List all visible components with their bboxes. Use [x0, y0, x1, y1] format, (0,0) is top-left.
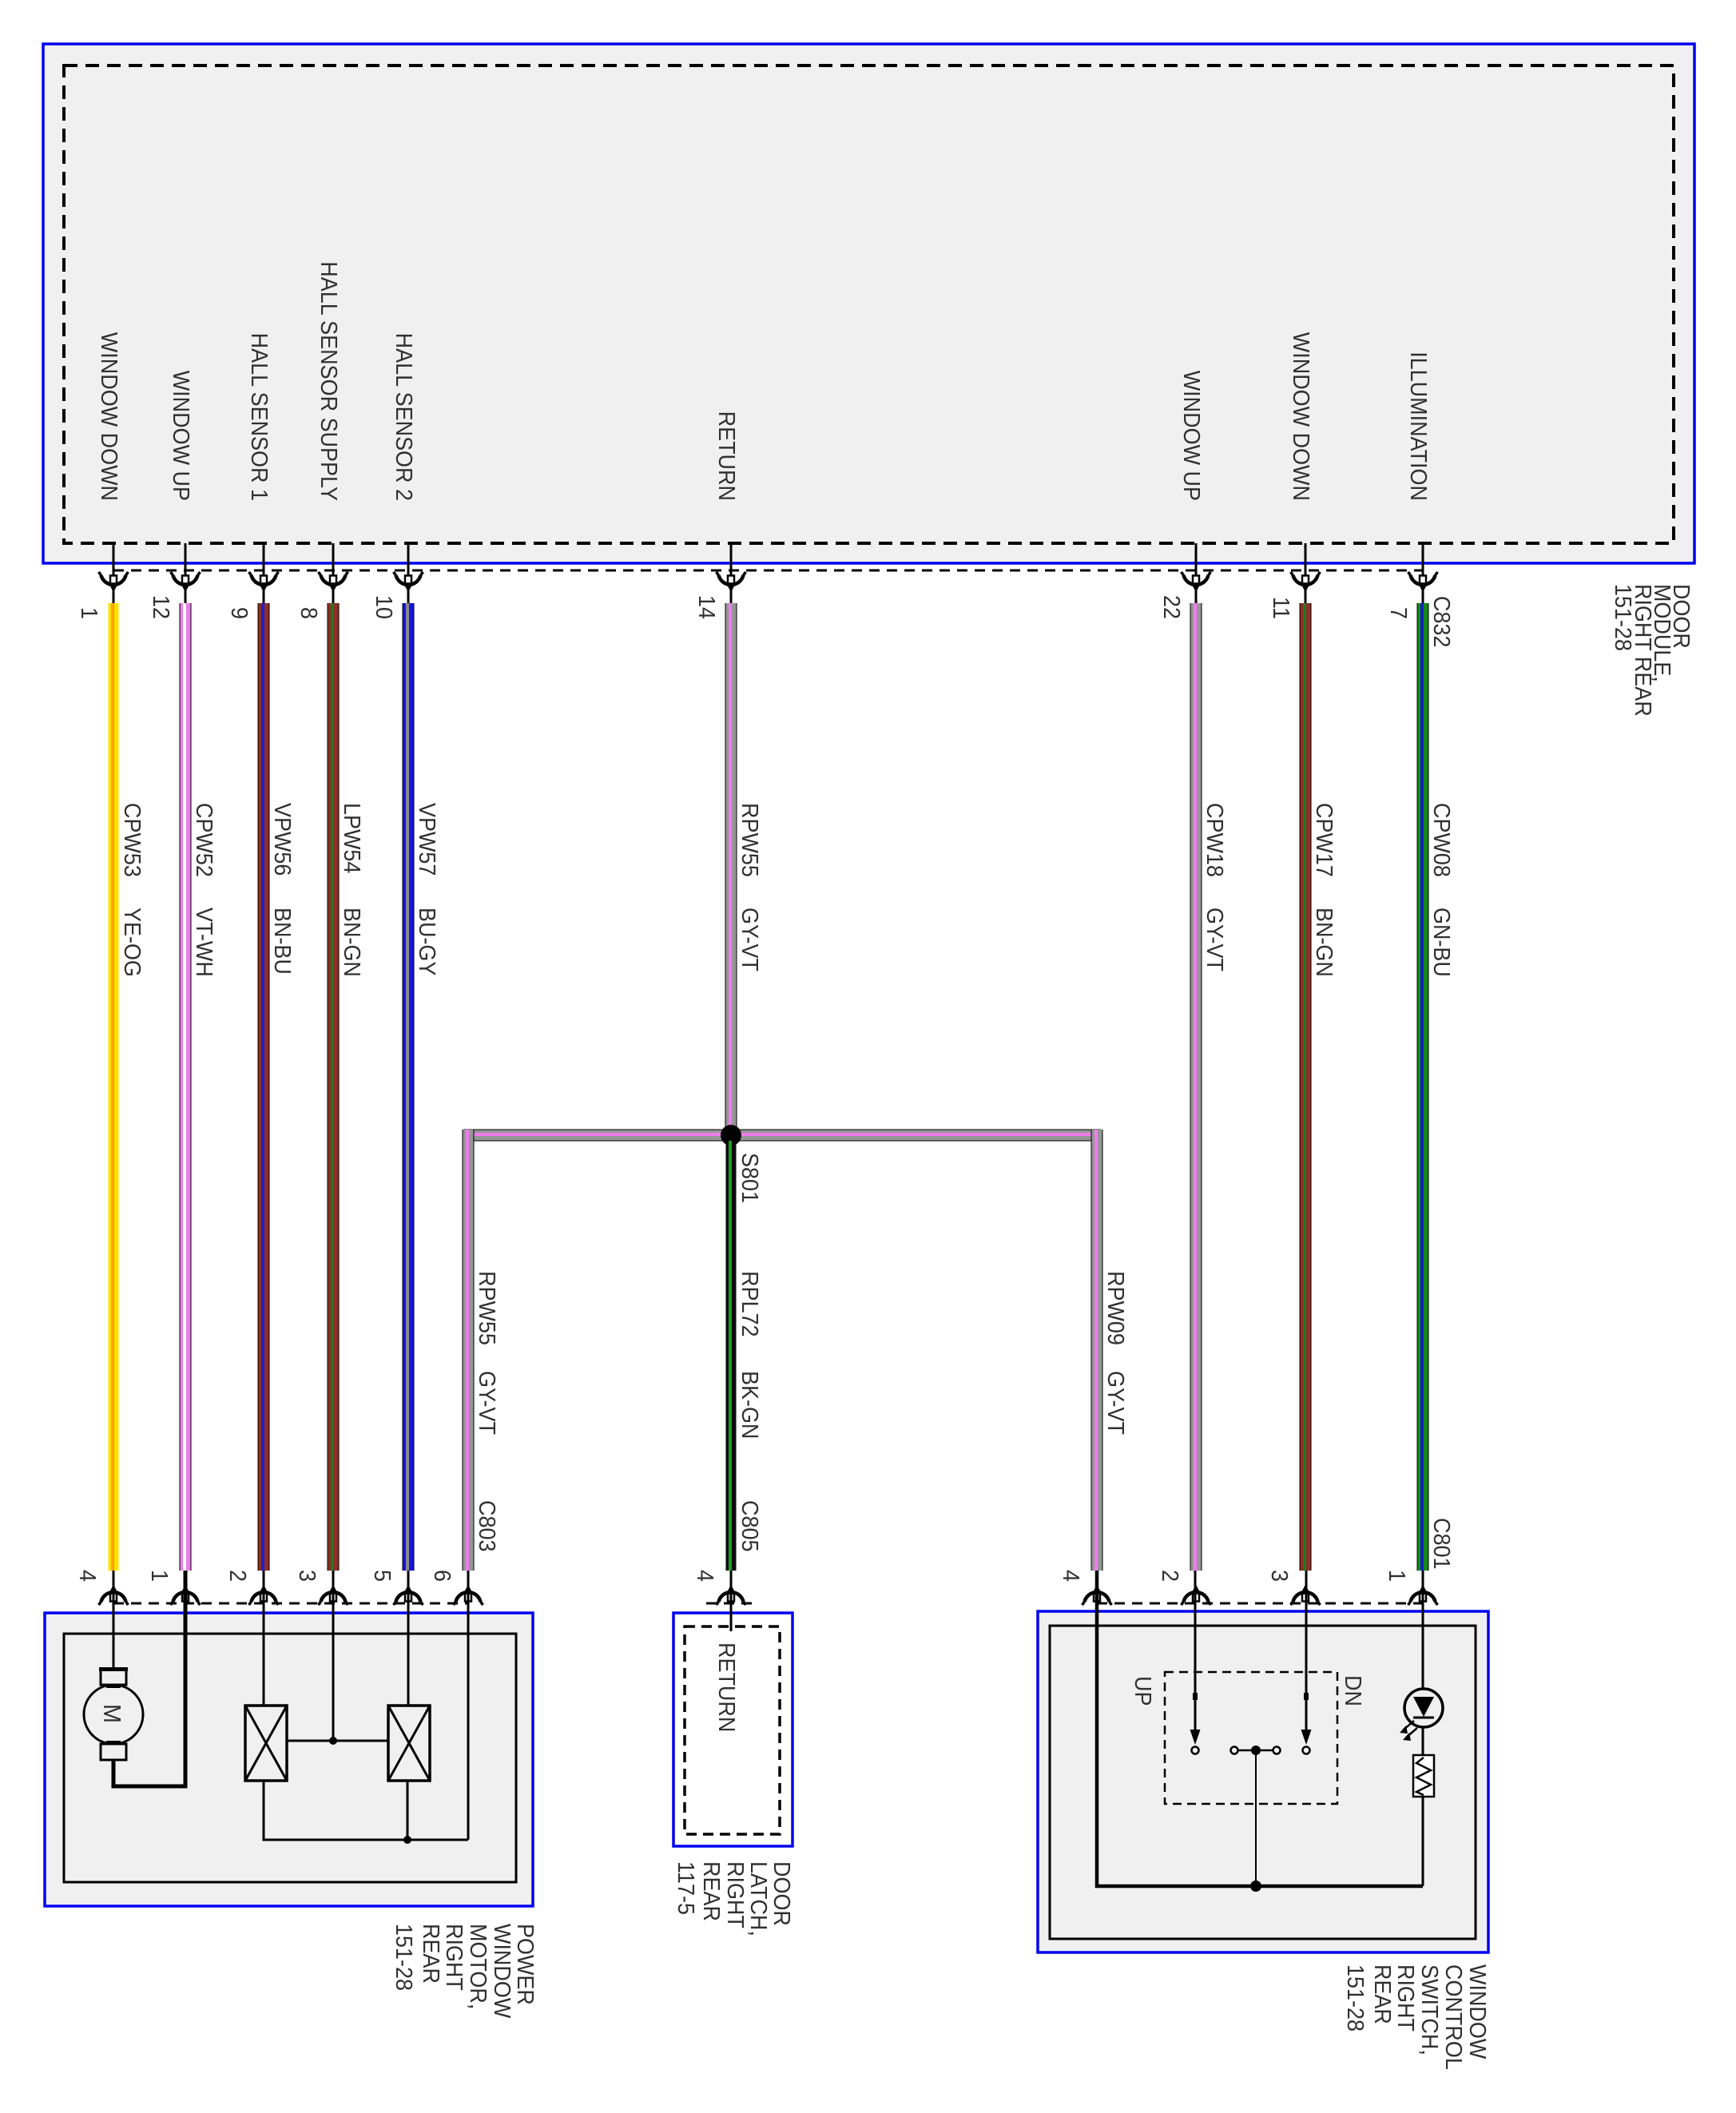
- svg-text:1: 1: [1384, 1570, 1410, 1582]
- bottom connector terminal at x=1497: [1182, 1585, 1211, 1606]
- svg-text:C801: C801: [1429, 1518, 1455, 1569]
- svg-text:117-5: 117-5: [673, 1861, 699, 1915]
- lead pin 4 to motor brush: [113, 1571, 115, 1669]
- bottom connector terminal at x=330: [249, 1585, 279, 1606]
- svg-text:1: 1: [77, 607, 102, 619]
- svg-text:WINDOW DOWN: WINDOW DOWN: [97, 332, 122, 501]
- svg-text:RETURN: RETURN: [714, 411, 740, 501]
- bottom connector terminal at x=232: [171, 1585, 201, 1606]
- wire LPW54 BN-GN (vertical run x=417): [328, 603, 340, 1571]
- switch lead pin 2 with arrow: [1194, 1571, 1197, 1734]
- lead pin 2 to hall sensor 1: [263, 1571, 265, 1706]
- connector C832 pin 22 terminal symbol: [1182, 572, 1211, 593]
- svg-text:BK-GN: BK-GN: [737, 1371, 763, 1439]
- svg-text:3: 3: [1267, 1570, 1293, 1582]
- motor M1 body: [84, 1685, 143, 1744]
- svg-text:7: 7: [1386, 607, 1412, 619]
- door latch lead pin 4: [730, 1571, 733, 1631]
- svg-text:4: 4: [75, 1570, 101, 1582]
- svg-text:POWER: POWER: [513, 1924, 538, 2005]
- svg-text:10: 10: [371, 595, 397, 619]
- svg-text:WINDOW: WINDOW: [1465, 1964, 1491, 2059]
- svg-text:BN-GN: BN-GN: [1312, 908, 1337, 977]
- svg-text:22: 22: [1159, 595, 1185, 619]
- svg-text:MOTOR,: MOTOR,: [466, 1924, 491, 2009]
- svg-text:GY-VT: GY-VT: [1103, 1371, 1129, 1435]
- module pin 10 lead wire: [407, 543, 410, 605]
- svg-text:RIGHT: RIGHT: [723, 1861, 749, 1928]
- sensor ground junction dot: [403, 1836, 411, 1844]
- svg-text:VT-WH: VT-WH: [192, 908, 217, 977]
- switch lead pin 4 (thick L path): [1097, 1571, 1423, 1886]
- motor box inner rectangle: [64, 1634, 516, 1882]
- wire RPW09 GY-VT (to switch pin 4) (vertical run x=1373): [1091, 1130, 1103, 1571]
- svg-text:9: 9: [227, 607, 252, 619]
- svg-text:RPW09: RPW09: [1103, 1271, 1129, 1345]
- svg-text:SWITCH,: SWITCH,: [1417, 1964, 1443, 2055]
- svg-text:CPW53: CPW53: [120, 803, 145, 877]
- svg-text:GY-VT: GY-VT: [1202, 908, 1228, 971]
- svg-text:YE-OG: YE-OG: [120, 908, 145, 977]
- bottom connector terminal at x=586: [454, 1585, 483, 1606]
- svg-text:C803: C803: [475, 1500, 500, 1551]
- svg-text:LATCH,: LATCH,: [746, 1861, 772, 1936]
- module pin 11 lead wire: [1305, 543, 1307, 605]
- svg-text:RETURN: RETURN: [714, 1642, 740, 1732]
- module pin 9 lead wire: [263, 543, 265, 605]
- svg-text:WINDOW: WINDOW: [490, 1924, 515, 2019]
- svg-text:CPW17: CPW17: [1312, 803, 1337, 877]
- connector C832 pin 11 terminal symbol: [1291, 572, 1321, 593]
- svg-text:RIGHT: RIGHT: [1393, 1964, 1419, 2032]
- svg-text:BU-GY: BU-GY: [415, 908, 440, 976]
- svg-text:151-28: 151-28: [1611, 584, 1636, 651]
- door latch dashed return block: [685, 1626, 780, 1834]
- svg-text:3: 3: [295, 1570, 320, 1582]
- connector C832 pin 7 terminal symbol: [1408, 572, 1438, 593]
- connector C805 dashed line: [706, 1603, 756, 1605]
- connector C832 pin 14 terminal symbol: [717, 572, 746, 593]
- hall sensor 1 (crossed box): [245, 1706, 287, 1781]
- svg-text:HALL SENSOR SUPPLY: HALL SENSOR SUPPLY: [316, 261, 342, 501]
- svg-text:2: 2: [1158, 1570, 1183, 1582]
- wire CPW53 YE-OG (vertical run x=142): [109, 603, 119, 1571]
- svg-text:GY-VT: GY-VT: [737, 908, 763, 971]
- svg-text:8: 8: [296, 607, 322, 619]
- wire VPW57 BU-GY (vertical run x=511): [403, 603, 415, 1571]
- bottom connector terminal at x=511: [394, 1585, 423, 1606]
- svg-text:CPW52: CPW52: [192, 803, 217, 877]
- switch DN contact circle: [1303, 1747, 1310, 1754]
- connector C832 pin 9 terminal symbol: [249, 572, 279, 593]
- svg-text:DN: DN: [1341, 1675, 1366, 1706]
- sensor supply link wire: [287, 1740, 388, 1742]
- svg-text:DOOR: DOOR: [769, 1861, 795, 1926]
- switch UP contact circle: [1192, 1747, 1199, 1754]
- switch position dashed box: [1165, 1672, 1337, 1804]
- switch lead pin 3 with arrow: [1305, 1571, 1308, 1734]
- svg-text:REAR: REAR: [1370, 1964, 1396, 2024]
- switch common contact circles and wiper: [1231, 1746, 1281, 1755]
- svg-text:BN-GN: BN-GN: [340, 908, 365, 977]
- module pin 1 lead wire: [113, 543, 115, 605]
- bottom connector terminal at x=1634: [1291, 1585, 1321, 1606]
- connector C832 pin 8 terminal symbol: [319, 572, 348, 593]
- connector C832 pin 1 terminal symbol: [99, 572, 129, 593]
- svg-text:VPW56: VPW56: [270, 803, 296, 876]
- svg-text:GN-BU: GN-BU: [1429, 908, 1455, 977]
- bottom connector terminal at x=915: [717, 1585, 746, 1606]
- switch lead pin 1 to illumination LED: [1422, 1571, 1424, 1690]
- illumination LED: [1400, 1689, 1443, 1741]
- svg-text:151-28: 151-28: [1343, 1964, 1369, 2032]
- hall sensor 2 ground leg: [407, 1781, 409, 1840]
- svg-text:WINDOW UP: WINDOW UP: [169, 371, 194, 501]
- module pin 22 lead wire: [1195, 543, 1198, 605]
- svg-text:WINDOW DOWN: WINDOW DOWN: [1289, 332, 1314, 501]
- splice S801 junction dot: [721, 1125, 741, 1146]
- window control switch box: [1038, 1611, 1488, 1952]
- svg-text:C832: C832: [1429, 596, 1455, 647]
- bottom connector terminal at x=1781: [1408, 1585, 1438, 1606]
- sensor supply junction dot: [329, 1737, 337, 1745]
- svg-text:HALL SENSOR 1: HALL SENSOR 1: [247, 333, 272, 501]
- connector C832 pin 12 terminal symbol: [171, 572, 201, 593]
- svg-text:REAR: REAR: [699, 1861, 725, 1921]
- svg-text:RPW55: RPW55: [475, 1271, 500, 1345]
- svg-text:LPW54: LPW54: [340, 803, 365, 873]
- connector C832 pin 10 terminal symbol: [394, 572, 423, 593]
- switch common wire down: [1255, 1750, 1257, 1886]
- svg-text:ILLUMINATION: ILLUMINATION: [1406, 352, 1432, 501]
- door latch box: [673, 1613, 793, 1846]
- switch connector dashed line: [1097, 1603, 1423, 1605]
- svg-text:HALL SENSOR 2: HALL SENSOR 2: [391, 333, 417, 501]
- wire RPW55 GY-VT (pin14 to S801) (vertical run x=915): [725, 603, 737, 1128]
- svg-text:151-28: 151-28: [391, 1924, 417, 1991]
- bottom connector terminal at x=142: [99, 1585, 129, 1606]
- svg-text:5: 5: [370, 1570, 395, 1582]
- svg-text:WINDOW UP: WINDOW UP: [1179, 371, 1205, 501]
- wire VPW56 BN-BU (vertical run x=330): [258, 603, 270, 1571]
- svg-text:REAR: REAR: [419, 1924, 444, 1984]
- svg-text:CPW18: CPW18: [1202, 803, 1228, 877]
- svg-text:RPW55: RPW55: [737, 803, 763, 877]
- wire CPW17 BN-GN (vertical run x=1634): [1300, 603, 1312, 1571]
- svg-text:11: 11: [1269, 597, 1294, 619]
- motor M1 bottom brush: [101, 1744, 126, 1760]
- lead pin 6 return line: [467, 1571, 470, 1840]
- switch common junction dot: [1250, 1881, 1261, 1892]
- motor M1 top brush: [101, 1669, 126, 1685]
- wire CPW52 VT-WH (vertical run x=232): [180, 603, 192, 1571]
- svg-text:M: M: [98, 1704, 125, 1723]
- svg-text:2: 2: [225, 1570, 251, 1582]
- svg-text:GY-VT: GY-VT: [475, 1371, 500, 1435]
- lead pin 1 (thick): [113, 1571, 185, 1786]
- bottom connector terminal at x=1373: [1083, 1585, 1112, 1606]
- module pin 8 lead wire: [332, 543, 335, 605]
- switch box inner rectangle: [1050, 1626, 1476, 1939]
- svg-text:C805: C805: [737, 1500, 763, 1551]
- hall sensor 2 (crossed box): [388, 1706, 430, 1781]
- sensor ground bus: [264, 1781, 468, 1840]
- svg-text:1: 1: [147, 1570, 173, 1582]
- svg-text:CPW08: CPW08: [1429, 803, 1455, 877]
- module pin 14 lead wire: [730, 543, 733, 605]
- svg-text:4: 4: [693, 1570, 718, 1582]
- power window motor box: [45, 1613, 533, 1906]
- module pin 7 lead wire: [1422, 543, 1424, 605]
- svg-text:RIGHT: RIGHT: [442, 1924, 467, 1991]
- lead pin 3 to sensor supply junction: [332, 1571, 335, 1741]
- connector C832 dashed line: [113, 570, 1424, 572]
- svg-text:S801: S801: [737, 1153, 763, 1203]
- door module, right rear: outer box: [43, 44, 1694, 563]
- module pin 12 lead wire: [185, 543, 187, 605]
- svg-text:CONTROL: CONTROL: [1441, 1964, 1467, 2070]
- svg-text:BN-BU: BN-BU: [270, 908, 296, 975]
- door module inner dashed boundary: [64, 66, 1674, 543]
- wire CPW08 GN-BU (vertical run x=1781): [1417, 603, 1429, 1571]
- illumination resistor: [1413, 1755, 1434, 1797]
- svg-text:RPL72: RPL72: [737, 1271, 763, 1337]
- resistor return leg: [1422, 1797, 1424, 1886]
- lead pin 5 to hall sensor 2: [407, 1571, 410, 1706]
- wire RPW55 GY-VT (to C803 pin 6) (vertical run x=586): [463, 1130, 475, 1571]
- svg-text:VPW57: VPW57: [415, 803, 440, 876]
- svg-text:14: 14: [694, 595, 720, 619]
- svg-text:12: 12: [149, 595, 174, 619]
- connector C803 dashed line: [113, 1603, 468, 1605]
- LED to resistor wire: [1422, 1727, 1424, 1755]
- svg-text:4: 4: [1059, 1570, 1084, 1582]
- wire RPL72 BK-GN (vertical run x=915): [726, 1141, 737, 1571]
- wire CPW18 GY-VT (vertical run x=1497): [1190, 603, 1202, 1571]
- svg-text:UP: UP: [1130, 1676, 1156, 1706]
- wire RPW55/RPW09 GY-VT splice arm (horizontal run y=1421): [463, 1130, 1101, 1142]
- bottom connector terminal at x=417: [319, 1585, 348, 1606]
- svg-text:6: 6: [430, 1570, 455, 1582]
